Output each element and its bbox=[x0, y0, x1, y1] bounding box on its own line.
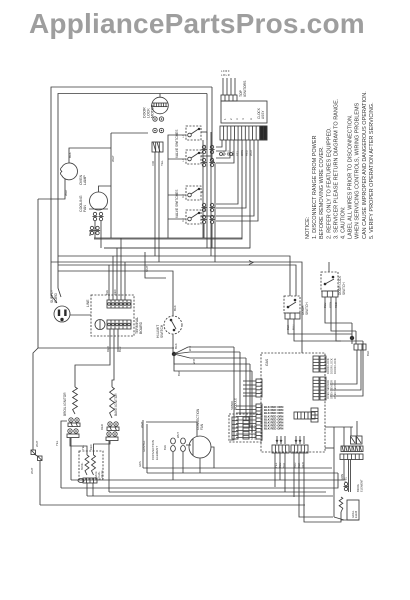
wire ribbon 3 bbox=[216, 140, 230, 158]
ribbon wire label BLK bbox=[222, 151, 226, 156]
wire VIO door lock down bbox=[154, 152, 156, 256]
wire ribbon 7 bbox=[216, 140, 246, 208]
svg-text:3. SERVICER PLEASE RETURN DIAG: 3. SERVICER PLEASE RETURN DIAGRAM TO RAN… bbox=[333, 98, 339, 239]
svg-text:W-B: W-B bbox=[192, 359, 196, 364]
cooling fan B1 bbox=[90, 192, 108, 210]
wire L1 border right vertical bbox=[211, 87, 213, 160]
wire bus y265 bbox=[58, 265, 296, 296]
wire chain left v bbox=[333, 427, 335, 517]
wire ribbon 8 long bbox=[104, 140, 250, 248]
wire bus y248 bbox=[104, 247, 250, 249]
connector pair2 x212 top bbox=[209, 203, 214, 211]
valve coil L1 bbox=[85, 455, 89, 475]
wire bus x203 bbox=[202, 140, 204, 238]
svg-text:4. CAUTION:: 4. CAUTION: bbox=[341, 206, 347, 239]
wire pair2 stub a bbox=[203, 224, 205, 238]
wire label BLK elem bbox=[163, 445, 167, 450]
wire right v3 bbox=[362, 341, 364, 352]
wire vsw left stub2 bbox=[168, 194, 186, 196]
terminal board lug slot bbox=[99, 320, 101, 329]
svg-text:L R L R: L R L R bbox=[221, 73, 230, 77]
wire bus y468 bbox=[143, 467, 332, 469]
valve switches label 2 bbox=[175, 189, 179, 218]
bake ignitor bracket a bbox=[107, 427, 119, 431]
ribbon connector P2 bbox=[220, 126, 267, 140]
oven door switch contact a bbox=[287, 306, 290, 309]
wire label BLK fan bbox=[88, 230, 92, 236]
wire bus y505 bbox=[40, 504, 305, 506]
wire bus y488 bbox=[61, 473, 338, 488]
supply cord label bbox=[50, 289, 58, 303]
wire CN1 feed 5 bbox=[243, 395, 256, 397]
wire label BLK cn9 bbox=[282, 463, 286, 468]
svg-text:NOTICE:: NOTICE: bbox=[305, 216, 311, 239]
wire label GRN bottom bbox=[138, 461, 142, 467]
broil ignitor bracket a bbox=[68, 423, 80, 427]
svg-text:ASSY: ASSY bbox=[261, 110, 265, 119]
hi-limit contact a bbox=[170, 319, 173, 322]
valve switch SW2 blade bbox=[191, 153, 199, 158]
chain comb B bbox=[341, 446, 363, 452]
svg-text:BLK: BLK bbox=[163, 445, 167, 450]
wire vsw2a right bbox=[201, 191, 203, 193]
wire N inner border top-left bbox=[58, 94, 207, 272]
wire CN2 feed 5 bbox=[236, 419, 256, 421]
wire CN1 feed 4 bbox=[243, 392, 256, 394]
wire conv fan top bbox=[146, 422, 197, 436]
wire TB up 2 bbox=[112, 256, 114, 300]
wire vsw left stubs bbox=[168, 158, 186, 160]
wire label YEL cn9 bbox=[274, 462, 278, 468]
control right connector CN3 bbox=[313, 356, 319, 372]
valve switch SW2 pivot bbox=[198, 152, 200, 154]
valve switch SW4 pivot bbox=[198, 212, 200, 214]
svg-text:GRN: GRN bbox=[340, 474, 344, 480]
chain comb B hatch bbox=[342, 446, 362, 452]
hi-limit blade bbox=[171, 320, 176, 329]
top ignitor pin marks bbox=[221, 69, 230, 77]
control right connector CN4 bbox=[320, 356, 326, 372]
clock assembly box bbox=[221, 101, 267, 123]
wire valve top 1 bbox=[70, 438, 87, 455]
svg-text:WHEN SERVICING CONTROLS, WIRIN: WHEN SERVICING CONTROLS, WIRING PROBLEMS bbox=[355, 102, 361, 239]
wire TB up 3 bbox=[116, 248, 118, 300]
wire x252 down bbox=[251, 371, 253, 432]
svg-text:2: 2 bbox=[229, 118, 233, 120]
wire valve down 1 bbox=[86, 483, 88, 496]
wire label BLK lamp bbox=[68, 152, 72, 158]
wire CN1 feed 2 bbox=[243, 384, 256, 386]
bake ignitor term b1 bbox=[107, 432, 111, 436]
terminal board screw r1-5 bbox=[124, 303, 127, 306]
svg-text:BLK: BLK bbox=[174, 343, 178, 349]
wire bus y496 bbox=[87, 495, 333, 497]
svg-text:3: 3 bbox=[235, 118, 239, 120]
wire chain double v2 bbox=[350, 460, 352, 493]
wire label RED tb up bbox=[113, 289, 117, 295]
door lock switch box bbox=[321, 272, 338, 291]
door lock motor terminal r1a bbox=[153, 117, 157, 121]
svg-text:BLK: BLK bbox=[68, 152, 72, 158]
wire TB down 2 bbox=[112, 329, 114, 387]
wire cn9 down 3 bbox=[284, 453, 286, 492]
bake ignitor R3 bbox=[110, 387, 115, 418]
hi-limit switch S1 bbox=[164, 316, 182, 334]
svg-text:CAN CAUSE IMPROPER AND DANGERO: CAN CAUSE IMPROPER AND DANGEROUS OPERATI… bbox=[362, 91, 368, 239]
wire CN1 feed 1 bbox=[243, 380, 256, 382]
wire vsw common down bbox=[167, 219, 169, 238]
door lock switch connector bbox=[322, 291, 338, 297]
wire chain double v1 bbox=[348, 460, 350, 493]
wire dls top bbox=[328, 262, 330, 272]
bake ignitor label bbox=[114, 393, 118, 416]
wire vsw1a right bbox=[201, 131, 207, 133]
svg-text:BOARD: BOARD bbox=[139, 321, 143, 334]
wire bus x211 bbox=[210, 132, 212, 256]
svg-text:5. VERIFY PROPER OPERATION AFT: 5. VERIFY PROPER OPERATION AFTER SERVICI… bbox=[369, 102, 375, 239]
wire label RED valve bbox=[89, 444, 93, 450]
wire fan to bus 238 bbox=[94, 221, 96, 238]
oven door switch blade bbox=[288, 302, 296, 307]
junction node J2 bbox=[350, 336, 354, 340]
terminal board screw r2-6 bbox=[128, 323, 131, 326]
wire label WHT lamp bbox=[64, 189, 68, 196]
oven lamp DS1 bbox=[61, 163, 78, 180]
terminal board row2 bbox=[107, 320, 131, 329]
wire x240 down bbox=[239, 352, 241, 415]
dual valve coil label bbox=[81, 462, 84, 470]
wire label RED tb bbox=[106, 346, 110, 352]
conv element terminal col1 bbox=[171, 438, 176, 452]
svg-text:W-B: W-B bbox=[188, 346, 192, 351]
bake ignitor term a2 bbox=[114, 422, 118, 426]
wire element to fan bbox=[186, 444, 191, 446]
wire label YEL broil bbox=[55, 440, 59, 446]
connector pair x204 top bbox=[201, 145, 206, 153]
wire label W-B 1 bbox=[188, 346, 192, 351]
wire left conn jog bbox=[34, 454, 39, 457]
wire label BLK vsw right2 bbox=[203, 206, 207, 211]
wire TB up 1 bbox=[108, 265, 110, 300]
valve switch SW4 blade bbox=[191, 213, 199, 218]
top ignitors connector bbox=[221, 95, 237, 101]
wire chain top jog bbox=[325, 447, 334, 449]
wire white bus left bbox=[38, 199, 174, 348]
control right connector CN7 bbox=[311, 408, 318, 422]
supply cord plug P3 bbox=[54, 306, 70, 322]
left connector lug b bbox=[38, 456, 43, 461]
wire label BLK cn10 bbox=[297, 463, 301, 468]
grill label bbox=[351, 510, 358, 518]
valve connector oval bbox=[78, 479, 84, 483]
svg-text:VIO: VIO bbox=[151, 160, 155, 166]
wire label BLU dls bbox=[323, 303, 327, 308]
wire latch down 3 bbox=[330, 352, 363, 396]
convection element label bbox=[151, 440, 159, 460]
wire CN2 feed 2 bbox=[236, 409, 256, 411]
wire label YEL bbox=[160, 160, 164, 166]
svg-text:WHT: WHT bbox=[64, 189, 68, 196]
svg-text:SWITCH: SWITCH bbox=[342, 282, 346, 295]
svg-text:WHT: WHT bbox=[111, 155, 115, 162]
door lock motor terminal r1b bbox=[159, 117, 163, 121]
wire label BLK vsw right1 bbox=[203, 145, 207, 150]
wire bus y238 bbox=[94, 237, 242, 239]
CN9 plug pins bbox=[276, 436, 285, 444]
broil ignitor term a1 bbox=[69, 418, 73, 422]
wire CN2 feed 10 bbox=[236, 437, 256, 439]
dual valve box bbox=[79, 451, 103, 479]
convection fan label bbox=[196, 408, 204, 430]
svg-text:CORD: CORD bbox=[54, 292, 58, 303]
oven lamp label bbox=[79, 174, 87, 185]
chain terminal pair bbox=[343, 482, 348, 490]
cooling fan bracket bbox=[89, 208, 108, 210]
wire bus x207 down bbox=[206, 132, 208, 248]
cooling fan terminal b bbox=[98, 212, 103, 220]
wire elem col1 down bbox=[172, 452, 174, 480]
svg-text:RED: RED bbox=[100, 424, 104, 430]
wire hilimit bottom bbox=[172, 334, 174, 354]
wire bus y256 bbox=[58, 256, 290, 296]
door lock connector hatch bbox=[153, 142, 160, 152]
wire conv fan right bbox=[211, 447, 214, 468]
door lock motor M1 bbox=[152, 97, 169, 114]
wire CN2 feed 6 bbox=[236, 423, 256, 425]
valve switch SW3 blade bbox=[191, 189, 199, 194]
wire vsw2b right bbox=[201, 215, 215, 217]
svg-text:RED: RED bbox=[245, 150, 249, 156]
wire pair2 stub b bbox=[211, 224, 213, 248]
clock assembly label bbox=[257, 107, 265, 119]
wire CN2 feed 3 bbox=[236, 412, 256, 414]
bake ignitor term a1 bbox=[108, 422, 112, 426]
supply cord prongs bbox=[58, 310, 67, 322]
wire cn10 down 3 bbox=[304, 453, 341, 522]
spark module box bbox=[229, 414, 262, 442]
wire x250 down bbox=[249, 364, 251, 428]
line label bbox=[86, 299, 90, 307]
wire label BLK j bbox=[177, 371, 181, 376]
cooling fan terminal d bbox=[95, 226, 100, 234]
wire bus y262 right bbox=[215, 262, 302, 353]
svg-text:SPARK MOD: SPARK MOD bbox=[253, 425, 257, 440]
terminal board label bbox=[135, 317, 143, 334]
wire broil ignitor down bbox=[70, 438, 72, 480]
svg-text:YEL: YEL bbox=[160, 160, 164, 166]
wire dls 3 bbox=[336, 297, 363, 341]
wire fan line 5 bbox=[174, 354, 252, 371]
wire grn/yel bbox=[142, 420, 144, 468]
dual valve label bbox=[95, 470, 104, 478]
ribbon wire label ORN bbox=[240, 150, 244, 156]
valve switch SW3 box bbox=[186, 186, 201, 200]
wire right v2 bbox=[355, 331, 357, 344]
wire ribbon 6 long bbox=[94, 140, 242, 239]
wire conv fan bottom bbox=[199, 458, 201, 473]
terminal board screw r2-2 bbox=[112, 323, 115, 326]
valve switch SW1 pivot bbox=[198, 128, 200, 130]
electronic control box A1 bbox=[261, 353, 325, 452]
svg-text:OVEN SENSOR: OVEN SENSOR bbox=[326, 380, 330, 399]
svg-text:BROIL IGNITOR: BROIL IGNITOR bbox=[63, 392, 67, 416]
wire bus y480 bbox=[71, 460, 344, 480]
oven door switch connector bbox=[285, 313, 300, 319]
svg-text:GRN: GRN bbox=[138, 461, 142, 467]
svg-text:RED: RED bbox=[89, 444, 93, 450]
svg-text:SWITCH: SWITCH bbox=[305, 302, 309, 315]
wire label RED cn10 bbox=[301, 462, 305, 468]
wire YEL left bbox=[61, 421, 67, 488]
wire cn10 down 1 bbox=[293, 453, 295, 497]
control right labels bbox=[326, 358, 337, 399]
wire right v1 bbox=[351, 323, 353, 344]
connector pair x212 top bbox=[209, 145, 214, 153]
CN10 plug pins bbox=[295, 436, 304, 444]
svg-text:ELEMENT: ELEMENT bbox=[359, 479, 363, 492]
wire chain drop 3 bbox=[356, 421, 358, 436]
control left connector CN1 bbox=[256, 379, 262, 397]
valve switch SW1 blade bbox=[191, 129, 199, 134]
wire chain drop 2 bbox=[350, 427, 352, 436]
chain element label bbox=[356, 479, 363, 492]
wire cn9 down 2 bbox=[279, 453, 281, 480]
svg-text:VALVE SWITCHES: VALVE SWITCHES bbox=[175, 189, 179, 218]
svg-text:VALVE: VALVE bbox=[101, 470, 104, 478]
wire label YEL chain bbox=[344, 476, 348, 482]
wire dls 2 bbox=[331, 297, 356, 331]
wire bus y262 main bbox=[51, 261, 215, 263]
top ignitor pin 2 bbox=[226, 78, 228, 95]
wire YEL door lock down bbox=[158, 152, 160, 262]
control pin labels block bbox=[264, 405, 283, 431]
svg-text:FAN: FAN bbox=[83, 205, 87, 212]
control right connector CN5 bbox=[313, 377, 319, 400]
svg-text:BLK: BLK bbox=[366, 351, 370, 356]
connector pair x204 mid bbox=[201, 158, 206, 166]
wire CN2 feed 4 bbox=[236, 416, 256, 418]
broil ignitor R2 bbox=[73, 387, 78, 414]
svg-text:BEFORE REMOVING WIRE COVER.: BEFORE REMOVING WIRE COVER. bbox=[319, 146, 325, 239]
wire WHT vertical x111 bbox=[110, 133, 112, 238]
wire vsw1b right bbox=[201, 155, 211, 157]
wire cn10 down 2 bbox=[299, 453, 333, 517]
svg-text:4: 4 bbox=[241, 118, 245, 120]
cooling fan label bbox=[79, 195, 87, 212]
oven door switch box bbox=[284, 296, 300, 313]
wire valve top 2 bbox=[94, 441, 111, 455]
wire fan to bus 248 bbox=[100, 221, 102, 248]
svg-text:LAMP: LAMP bbox=[83, 175, 87, 185]
wire CN2 feed 7 bbox=[236, 426, 256, 428]
svg-text:LINE: LINE bbox=[86, 299, 90, 307]
wire ribbon 1 bbox=[216, 140, 222, 147]
svg-text:DOOR LOCK: DOOR LOCK bbox=[333, 358, 337, 374]
disconnect symbol a bbox=[220, 153, 233, 156]
svg-text:YEL: YEL bbox=[81, 445, 85, 450]
wire elem col2 down bbox=[182, 452, 184, 473]
wire ribbon 10 bbox=[216, 140, 258, 221]
wire label BLK ods bbox=[286, 325, 290, 330]
broil ignitor term b1 bbox=[68, 429, 72, 433]
oven door switch contact b bbox=[294, 299, 297, 302]
control left connector CN2 bbox=[256, 404, 262, 439]
hi-limit switch label bbox=[156, 324, 164, 338]
wire label WHT elem bbox=[176, 432, 180, 438]
svg-text:BLU: BLU bbox=[118, 347, 122, 352]
wire TB up 5 bbox=[124, 262, 126, 300]
wire bus y271 bbox=[58, 271, 173, 316]
wire latch down 1 bbox=[330, 350, 357, 384]
wire CN1 feed 3 bbox=[243, 388, 256, 390]
svg-text:BAKE IGNITOR: BAKE IGNITOR bbox=[114, 393, 118, 416]
wire L1 to supply plug bbox=[51, 277, 57, 303]
spark module connector CN12 bbox=[243, 417, 249, 439]
supply cord wire bbox=[70, 314, 91, 316]
wire ods 2 bbox=[294, 319, 341, 341]
wire ribbon 4 bbox=[216, 140, 234, 163]
gas label bbox=[265, 358, 269, 366]
wire fan line 4 bbox=[174, 354, 250, 364]
connector pair2 x204 mid bbox=[201, 215, 206, 223]
wire label WHT left b bbox=[30, 467, 34, 474]
wire x246 down bbox=[245, 358, 247, 420]
wire CN2 feed 1 bbox=[236, 405, 256, 407]
wire label GRN chain bbox=[340, 474, 344, 480]
control bottom connector CN9 bbox=[272, 445, 289, 453]
notice text block bbox=[305, 91, 375, 239]
terminal board screw r1-3 bbox=[116, 303, 119, 306]
latch labels bbox=[366, 351, 370, 356]
clock pin numbers bbox=[223, 118, 253, 120]
cooling fan terminal a bbox=[92, 212, 97, 220]
door lock connector P1 bbox=[152, 142, 163, 152]
broil ignitor term a2 bbox=[75, 418, 79, 422]
valve coil L2 bbox=[92, 455, 96, 475]
wire valve down 2 bbox=[92, 483, 94, 496]
cooling fan terminal c bbox=[89, 226, 94, 234]
svg-text:ELEM: ELEM bbox=[354, 511, 358, 518]
terminal board screw r1-2 bbox=[112, 303, 115, 306]
wire fan line 1 bbox=[174, 347, 234, 354]
valve connector bbox=[83, 478, 97, 483]
control right connector CN6 bbox=[320, 377, 326, 400]
svg-text:BROIL: BROIL bbox=[81, 462, 84, 470]
wire label WHT conv top bbox=[140, 421, 144, 428]
connector pair2 x204 top bbox=[201, 203, 206, 211]
wire chain top bbox=[325, 426, 353, 428]
wire valve switch common left bbox=[168, 135, 186, 219]
svg-text:WHT: WHT bbox=[176, 432, 180, 438]
wire TB down 3 bbox=[117, 329, 119, 352]
oven door switch label bbox=[301, 302, 309, 315]
wire bake ignitor down bbox=[108, 441, 110, 492]
wire chain bottom join bbox=[334, 517, 344, 520]
wire label RED bake bbox=[100, 424, 104, 430]
wire label WHT x145 bbox=[145, 265, 149, 272]
ribbon wire label WHT bbox=[249, 149, 253, 156]
svg-text:SWITCH: SWITCH bbox=[160, 324, 164, 338]
valve switch SW2 box bbox=[186, 150, 201, 164]
left connector lug a bbox=[31, 450, 36, 455]
wire bus x215 bbox=[212, 160, 215, 262]
control bottom connector CN10 bbox=[291, 445, 308, 453]
chain connector A1 bbox=[351, 436, 357, 444]
svg-text:LABEL ALL WIRES PRIOR TO DISCO: LABEL ALL WIRES PRIOR TO DISCONNECTION. bbox=[348, 114, 354, 239]
wire label BLK hilimit top bbox=[173, 305, 177, 311]
top ignitor pin 3 bbox=[230, 78, 232, 95]
wire chain drop 1 bbox=[343, 427, 345, 446]
